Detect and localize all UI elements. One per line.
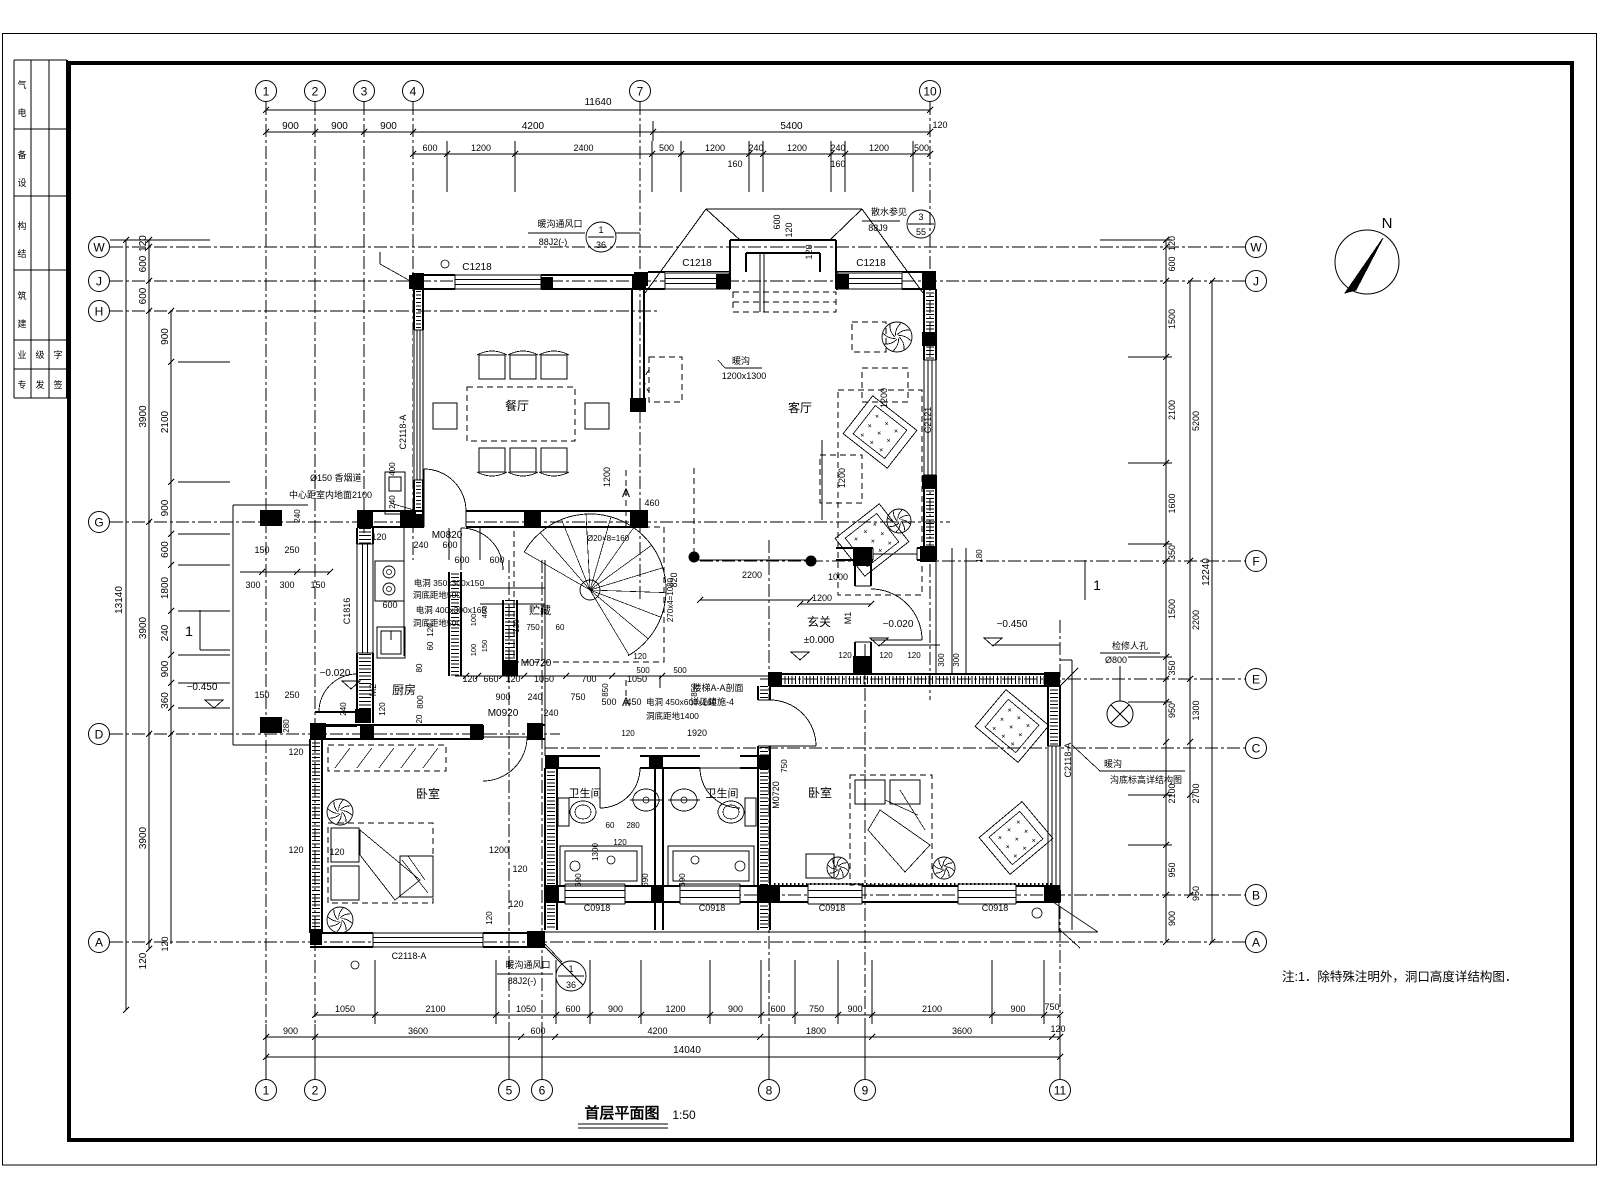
svg-text:构: 构 — [17, 220, 26, 231]
svg-text:280: 280 — [626, 821, 640, 830]
svg-text:750: 750 — [526, 623, 540, 632]
svg-text:餐厅: 餐厅 — [505, 398, 529, 413]
svg-text:600: 600 — [1167, 256, 1177, 271]
svg-text:120: 120 — [508, 899, 523, 909]
svg-text:H: H — [95, 304, 104, 318]
svg-text:950: 950 — [1167, 703, 1177, 718]
svg-text:120: 120 — [804, 244, 814, 259]
svg-text:卫生间: 卫生间 — [569, 786, 602, 800]
svg-text:C0918: C0918 — [982, 903, 1009, 913]
svg-text:600: 600 — [489, 555, 504, 565]
svg-text:400: 400 — [480, 606, 489, 619]
svg-text:36: 36 — [596, 240, 606, 250]
svg-text:120: 120 — [378, 702, 387, 716]
svg-text:W: W — [1250, 240, 1262, 254]
svg-text:690: 690 — [574, 873, 583, 887]
svg-text:20: 20 — [415, 714, 424, 723]
svg-text:G: G — [94, 515, 103, 529]
svg-text:卧室: 卧室 — [808, 785, 832, 800]
svg-text:C2118-A: C2118-A — [398, 415, 408, 450]
svg-text:2100: 2100 — [1167, 783, 1177, 803]
svg-text:350: 350 — [1167, 660, 1177, 675]
svg-text:150: 150 — [310, 580, 325, 590]
svg-text:4200: 4200 — [647, 1026, 667, 1036]
svg-text:690: 690 — [678, 873, 687, 887]
svg-text:2: 2 — [312, 84, 319, 98]
svg-text:C0918: C0918 — [699, 903, 726, 913]
svg-text:600: 600 — [770, 1004, 785, 1014]
svg-text:洞底距地500: 洞底距地500 — [413, 618, 461, 628]
svg-text:字: 字 — [53, 349, 62, 360]
svg-text:120: 120 — [1050, 1024, 1065, 1034]
svg-text:详见建施-4: 详见建施-4 — [690, 696, 734, 707]
svg-text:120: 120 — [621, 729, 635, 738]
svg-text:120: 120 — [138, 235, 149, 252]
svg-text:150: 150 — [480, 640, 489, 653]
svg-text:80: 80 — [415, 663, 424, 672]
svg-text:沟底标高详结构图: 沟底标高详结构图 — [1110, 774, 1182, 785]
svg-text:4: 4 — [410, 84, 417, 98]
svg-text:1200: 1200 — [837, 468, 847, 488]
svg-text:60: 60 — [426, 641, 435, 650]
svg-text:B: B — [1252, 888, 1260, 902]
svg-text:检修人孔: 检修人孔 — [1112, 640, 1148, 651]
svg-text:1800: 1800 — [160, 576, 171, 599]
svg-text:500: 500 — [914, 143, 929, 153]
svg-text:1200: 1200 — [812, 593, 832, 603]
svg-text:500: 500 — [673, 666, 687, 675]
svg-text:M1: M1 — [843, 612, 853, 625]
svg-text:88J2(-): 88J2(-) — [539, 237, 568, 247]
svg-text:备: 备 — [17, 149, 26, 160]
svg-text:7: 7 — [637, 84, 644, 98]
svg-text:1200: 1200 — [787, 143, 807, 153]
svg-text:A: A — [622, 695, 630, 709]
svg-text:1050: 1050 — [534, 674, 554, 684]
svg-text:500: 500 — [636, 666, 650, 675]
svg-text:160: 160 — [830, 159, 845, 169]
svg-text:C2121: C2121 — [923, 407, 933, 434]
svg-text:120: 120 — [138, 952, 149, 969]
svg-text:1300: 1300 — [591, 843, 600, 861]
svg-text:690: 690 — [641, 873, 650, 887]
svg-text:首层平面图: 首层平面图 — [584, 1104, 659, 1122]
svg-text:600: 600 — [382, 600, 397, 610]
svg-text:240: 240 — [160, 624, 171, 641]
svg-text:2700: 2700 — [1191, 783, 1201, 803]
svg-text:散水参见: 散水参见 — [871, 206, 907, 217]
svg-text:业: 业 — [17, 350, 26, 360]
svg-text:270x4=1080: 270x4=1080 — [666, 577, 675, 622]
svg-text:900: 900 — [282, 121, 299, 132]
svg-text:100: 100 — [469, 644, 478, 657]
svg-text:C: C — [1252, 741, 1261, 755]
svg-text:500: 500 — [601, 697, 616, 707]
svg-text:A: A — [1252, 935, 1260, 949]
svg-text:1200: 1200 — [489, 845, 509, 855]
svg-text:签: 签 — [53, 379, 62, 390]
svg-text:350: 350 — [1167, 545, 1177, 560]
svg-text:900: 900 — [847, 1004, 862, 1014]
svg-text:C1218: C1218 — [462, 262, 492, 273]
svg-text:88J9: 88J9 — [868, 223, 888, 233]
svg-text:600: 600 — [160, 541, 171, 558]
svg-text:F: F — [1252, 554, 1259, 568]
svg-text:120: 120 — [1167, 236, 1177, 251]
svg-text:13140: 13140 — [114, 586, 125, 614]
svg-text:玄关: 玄关 — [807, 614, 831, 629]
svg-text:设: 设 — [17, 178, 26, 188]
svg-text:240: 240 — [339, 702, 348, 716]
svg-text:客厅: 客厅 — [788, 400, 812, 415]
svg-text:气: 气 — [17, 79, 26, 90]
svg-text:1: 1 — [185, 623, 193, 639]
svg-text:M0920: M0920 — [488, 708, 519, 719]
svg-text:C1218: C1218 — [682, 258, 712, 269]
svg-text:36: 36 — [566, 980, 576, 990]
svg-text:120: 120 — [485, 911, 494, 925]
svg-text:600: 600 — [138, 255, 149, 272]
svg-text:1500: 1500 — [1167, 599, 1177, 619]
svg-text:Ø800: Ø800 — [1105, 655, 1127, 665]
svg-text:1200: 1200 — [705, 143, 725, 153]
svg-text:2100: 2100 — [425, 1004, 445, 1014]
svg-text:5400: 5400 — [780, 121, 803, 132]
svg-text:900: 900 — [283, 1026, 298, 1036]
svg-text:120: 120 — [160, 936, 170, 951]
svg-text:120: 120 — [932, 120, 947, 130]
svg-text:−0.020: −0.020 — [320, 668, 351, 679]
svg-text:3900: 3900 — [138, 405, 149, 428]
svg-text:C1816: C1816 — [342, 598, 352, 625]
svg-text:10: 10 — [923, 84, 937, 98]
svg-text:J: J — [1253, 274, 1259, 288]
svg-text:600: 600 — [138, 287, 149, 304]
svg-text:暖沟: 暖沟 — [1104, 758, 1122, 769]
svg-text:900: 900 — [608, 1004, 623, 1014]
svg-text:750: 750 — [570, 692, 585, 702]
svg-text:1200: 1200 — [471, 143, 491, 153]
svg-text:180: 180 — [975, 549, 984, 563]
svg-text:280: 280 — [282, 719, 291, 733]
svg-text:4200: 4200 — [522, 121, 545, 132]
svg-text:120: 120 — [288, 845, 303, 855]
svg-text:W: W — [93, 240, 105, 254]
svg-text:900: 900 — [1167, 911, 1177, 926]
svg-text:600: 600 — [772, 214, 782, 229]
svg-text:900: 900 — [495, 692, 510, 702]
svg-text:800: 800 — [416, 695, 425, 709]
svg-text:D: D — [95, 727, 104, 741]
svg-text:−0.020: −0.020 — [883, 619, 914, 630]
svg-text:E: E — [1252, 672, 1260, 686]
svg-text:1500: 1500 — [1167, 309, 1177, 329]
svg-text:1200: 1200 — [602, 467, 612, 487]
svg-text:3: 3 — [918, 212, 923, 222]
svg-text:贮藏: 贮藏 — [529, 604, 551, 617]
svg-text:N: N — [1382, 215, 1393, 232]
svg-text:2100: 2100 — [922, 1004, 942, 1014]
svg-text:900: 900 — [160, 328, 171, 345]
svg-text:C2118-A: C2118-A — [392, 951, 427, 961]
svg-text:A: A — [95, 935, 103, 949]
svg-text:2400: 2400 — [573, 143, 593, 153]
svg-text:850: 850 — [601, 683, 610, 697]
svg-text:600: 600 — [565, 1004, 580, 1014]
svg-text:120: 120 — [505, 674, 520, 684]
svg-text:1050: 1050 — [335, 1004, 355, 1014]
svg-text:150: 150 — [254, 545, 269, 555]
svg-text:洞底距地1400: 洞底距地1400 — [646, 711, 699, 721]
svg-text:1:50: 1:50 — [672, 1108, 696, 1122]
svg-text:楼梯A-A剖面: 楼梯A-A剖面 — [692, 682, 743, 693]
svg-text:Ø150 香烟道: Ø150 香烟道 — [310, 472, 362, 483]
svg-text:60: 60 — [556, 623, 565, 632]
svg-text:发: 发 — [35, 379, 44, 390]
svg-text:M2: M2 — [368, 684, 378, 697]
svg-text:M0720: M0720 — [521, 658, 552, 669]
svg-text:暖沟: 暖沟 — [732, 355, 750, 366]
svg-text:2100: 2100 — [160, 410, 171, 433]
svg-text:120: 120 — [512, 619, 521, 633]
svg-text:600: 600 — [530, 1026, 545, 1036]
svg-text:J: J — [96, 274, 102, 288]
svg-text:9: 9 — [862, 1083, 869, 1097]
svg-text:−0.450: −0.450 — [187, 682, 218, 693]
svg-text:C2118-A: C2118-A — [1063, 743, 1073, 778]
svg-text:120: 120 — [784, 222, 794, 237]
svg-text:1200x1300: 1200x1300 — [722, 371, 767, 381]
svg-text:160: 160 — [727, 159, 742, 169]
svg-text:900: 900 — [331, 121, 348, 132]
svg-text:级: 级 — [35, 349, 44, 360]
svg-text:11: 11 — [1054, 1083, 1067, 1097]
svg-text:120: 120 — [288, 747, 303, 757]
svg-text:900: 900 — [380, 121, 397, 132]
svg-text:1: 1 — [263, 1083, 270, 1097]
svg-text:240: 240 — [543, 708, 558, 718]
svg-text:电: 电 — [17, 107, 26, 118]
svg-text:2100: 2100 — [1167, 400, 1177, 420]
svg-text:电洞 400x300x160: 电洞 400x300x160 — [416, 605, 487, 615]
svg-text:2: 2 — [312, 1083, 319, 1097]
svg-text:1: 1 — [263, 84, 270, 98]
svg-text:60: 60 — [606, 821, 615, 830]
svg-text:120: 120 — [838, 651, 852, 660]
svg-text:900: 900 — [160, 660, 171, 677]
svg-text:C0918: C0918 — [819, 903, 846, 913]
svg-text:120: 120 — [633, 652, 647, 661]
svg-text:1: 1 — [568, 964, 573, 974]
svg-text:电洞 350x300x150: 电洞 350x300x150 — [414, 578, 485, 588]
svg-text:900: 900 — [728, 1004, 743, 1014]
svg-text:Ø20×8=160: Ø20×8=160 — [587, 534, 630, 543]
svg-text:5: 5 — [506, 1083, 513, 1097]
svg-text:6: 6 — [539, 1083, 546, 1097]
svg-text:卫生间: 卫生间 — [706, 786, 739, 800]
svg-text:5200: 5200 — [1191, 411, 1201, 431]
svg-text:8: 8 — [766, 1083, 773, 1097]
svg-text:600: 600 — [442, 540, 457, 550]
svg-text:专: 专 — [17, 379, 26, 390]
svg-text:950: 950 — [1191, 886, 1201, 901]
svg-text:120: 120 — [613, 838, 627, 847]
svg-text:暖沟通风口: 暖沟通风口 — [505, 959, 550, 970]
svg-text:12240: 12240 — [1201, 558, 1212, 586]
svg-text:240: 240 — [413, 540, 428, 550]
svg-text:100: 100 — [469, 614, 478, 627]
svg-text:660: 660 — [483, 674, 498, 684]
svg-text:900: 900 — [1010, 1004, 1025, 1014]
svg-text:750: 750 — [1044, 1002, 1059, 1012]
svg-text:950: 950 — [1167, 862, 1177, 877]
svg-text:500: 500 — [659, 143, 674, 153]
svg-text:1200: 1200 — [879, 388, 889, 408]
svg-text:11640: 11640 — [584, 97, 612, 108]
svg-text:400: 400 — [388, 462, 397, 476]
svg-text:3600: 3600 — [408, 1026, 428, 1036]
svg-text:注:1．除特殊注明外，洞口高度详结构图．: 注:1．除特殊注明外，洞口高度详结构图． — [1282, 969, 1517, 984]
svg-text:88J2(-): 88J2(-) — [508, 976, 537, 986]
svg-text:C1218: C1218 — [856, 258, 886, 269]
svg-text:250: 250 — [284, 690, 299, 700]
svg-text:240: 240 — [830, 143, 845, 153]
svg-text:3900: 3900 — [138, 826, 149, 849]
svg-text:3: 3 — [361, 84, 368, 98]
svg-text:3900: 3900 — [138, 616, 149, 639]
svg-text:3600: 3600 — [952, 1026, 972, 1036]
svg-text:中心距室内地面2100: 中心距室内地面2100 — [289, 489, 372, 500]
svg-text:1300: 1300 — [1191, 700, 1201, 720]
svg-text:120: 120 — [329, 847, 344, 857]
svg-text:厨房: 厨房 — [392, 682, 416, 697]
svg-text:2200: 2200 — [742, 570, 762, 580]
svg-text:300: 300 — [952, 653, 961, 667]
svg-text:300: 300 — [937, 653, 946, 667]
svg-text:55: 55 — [916, 227, 926, 237]
svg-text:120: 120 — [907, 651, 921, 660]
svg-text:筑: 筑 — [17, 290, 26, 301]
svg-text:1200: 1200 — [665, 1004, 685, 1014]
svg-text:120: 120 — [879, 651, 893, 660]
svg-text:1920: 1920 — [687, 728, 707, 738]
svg-text:−0.450: −0.450 — [997, 619, 1028, 630]
svg-text:460: 460 — [644, 498, 659, 508]
svg-text:250: 250 — [284, 545, 299, 555]
svg-text:240: 240 — [388, 495, 397, 509]
svg-text:1800: 1800 — [806, 1026, 826, 1036]
svg-text:C0918: C0918 — [584, 903, 611, 913]
svg-text:300: 300 — [279, 580, 294, 590]
svg-text:±0.000: ±0.000 — [804, 635, 835, 646]
svg-text:结: 结 — [17, 248, 26, 259]
svg-text:1050: 1050 — [516, 1004, 536, 1014]
svg-text:建: 建 — [17, 318, 26, 329]
svg-text:卧室: 卧室 — [416, 786, 440, 801]
svg-text:暖沟通风口: 暖沟通风口 — [537, 218, 582, 229]
svg-text:2200: 2200 — [1191, 610, 1201, 630]
svg-text:750: 750 — [809, 1004, 824, 1014]
svg-text:900: 900 — [160, 499, 171, 516]
svg-text:700: 700 — [581, 674, 596, 684]
svg-text:1050: 1050 — [627, 674, 647, 684]
svg-text:1: 1 — [1093, 577, 1101, 593]
svg-text:洞底距地500: 洞底距地500 — [413, 590, 461, 600]
svg-text:750: 750 — [780, 759, 789, 773]
svg-text:150: 150 — [254, 690, 269, 700]
svg-text:1200: 1200 — [869, 143, 889, 153]
svg-text:240: 240 — [527, 692, 542, 702]
svg-text:1: 1 — [598, 225, 603, 235]
svg-text:360: 360 — [160, 692, 171, 709]
svg-text:240: 240 — [293, 509, 302, 523]
svg-text:120: 120 — [512, 864, 527, 874]
svg-text:1600: 1600 — [1167, 493, 1177, 513]
svg-text:240: 240 — [748, 143, 763, 153]
svg-text:600: 600 — [422, 143, 437, 153]
svg-text:300: 300 — [245, 580, 260, 590]
svg-text:M0720: M0720 — [771, 781, 781, 809]
svg-text:600: 600 — [454, 555, 469, 565]
svg-text:14040: 14040 — [673, 1045, 701, 1056]
